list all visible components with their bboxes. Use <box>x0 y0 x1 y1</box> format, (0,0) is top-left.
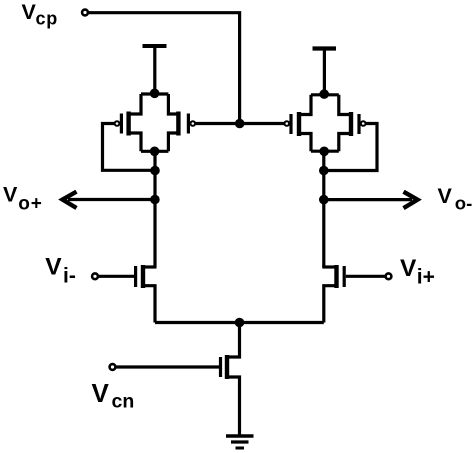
nmos M7 source lead <box>227 377 240 436</box>
wire M4 diode connection loop <box>327 124 377 171</box>
nmos M5 drain lead <box>143 265 157 268</box>
node drain right pair <box>319 147 329 157</box>
pmos M1 gate <box>120 114 123 134</box>
svg-text:V: V <box>45 254 62 281</box>
node source right pair <box>319 89 329 99</box>
supply bar right <box>313 46 337 50</box>
label Vi- <box>45 254 76 288</box>
pmos M2 gate <box>187 114 190 134</box>
arrowhead Vo- <box>404 192 418 208</box>
nmos M6 source lead <box>324 286 337 323</box>
pmos M1 gate bubble <box>115 121 120 126</box>
nmos M7 channel bar <box>225 355 229 379</box>
node M1 gate-drain tie <box>150 166 160 176</box>
nmos M5 channel bar <box>141 265 145 288</box>
label Vcn <box>92 378 135 413</box>
terminal Vcn <box>110 364 116 370</box>
svg-text:i-: i- <box>63 265 76 288</box>
svg-text:o+: o+ <box>18 194 42 215</box>
terminal Vi- <box>92 273 98 279</box>
svg-text:o-: o- <box>455 193 472 214</box>
pmos M4 gate bubble <box>361 121 366 126</box>
nmos M6 drain lead <box>322 265 336 268</box>
node drain left pair <box>150 147 160 157</box>
svg-text:cn: cn <box>112 391 135 413</box>
nmos M5 gate <box>134 266 137 287</box>
node Vo+ tap <box>150 195 160 205</box>
label Vi+ <box>400 255 435 289</box>
pmos M3 gate <box>289 114 292 134</box>
wire M1 diode connection loop <box>103 124 153 171</box>
pmos M3 channel bar <box>297 112 301 136</box>
node source left pair <box>150 89 160 99</box>
pmos M2 channel bar <box>176 112 180 136</box>
pmos M4 channel bar <box>349 112 353 136</box>
svg-text:V: V <box>22 0 37 24</box>
terminal Vcp <box>82 10 88 16</box>
svg-text:V: V <box>400 255 417 282</box>
label Vo+ <box>3 183 42 215</box>
arrowhead Vo+ <box>63 192 77 208</box>
pmos pair left body (M1 outer, M2 inner) source/drain cross <box>130 94 178 151</box>
svg-text:i+: i+ <box>417 266 435 289</box>
svg-text:V: V <box>438 184 453 208</box>
label Vo- <box>438 184 473 214</box>
wire left branch <box>153 151 156 267</box>
nmos M6 gate <box>343 266 346 287</box>
wire Vo- <box>324 198 412 201</box>
pmos M2 gate bubble <box>191 121 196 126</box>
nmos M5 source lead <box>143 286 155 323</box>
nmos M7 drain lead <box>227 323 240 358</box>
wire Vo+ <box>68 198 155 201</box>
node gate bias junction <box>235 119 245 129</box>
node M4 gate-drain tie <box>319 166 329 176</box>
pmos M3 gate bubble <box>285 121 290 126</box>
nmos M6 channel bar <box>334 265 338 288</box>
node tail junction <box>235 318 245 328</box>
nmos M7 gate <box>219 357 222 377</box>
wire gate bias M2-M3 <box>195 122 285 125</box>
wire Vi+ to M6 gate <box>346 275 385 278</box>
svg-text:cp: cp <box>36 9 59 29</box>
wire Vi- to M5 gate <box>99 275 135 278</box>
ground <box>226 436 254 448</box>
wire right branch <box>322 151 325 267</box>
wire Vcp to gate bias node <box>89 13 240 120</box>
node Vo- tap <box>319 195 329 205</box>
wire supply to M1/M2 sources <box>153 46 156 92</box>
svg-text:V: V <box>3 183 18 207</box>
terminal Vi+ <box>386 273 392 279</box>
pmos pair right body (M3 inner, M4 outer) source/drain cross <box>300 95 350 151</box>
pmos M1 channel bar <box>126 112 130 136</box>
label Vcp <box>22 0 59 29</box>
wire Vcn to M7 gate <box>116 365 219 368</box>
wire tail rail <box>155 321 324 324</box>
svg-text:V: V <box>92 378 110 408</box>
wire supply to M3/M4 sources <box>323 49 326 94</box>
supply bar left <box>143 44 167 48</box>
pmos M4 gate <box>357 114 360 134</box>
